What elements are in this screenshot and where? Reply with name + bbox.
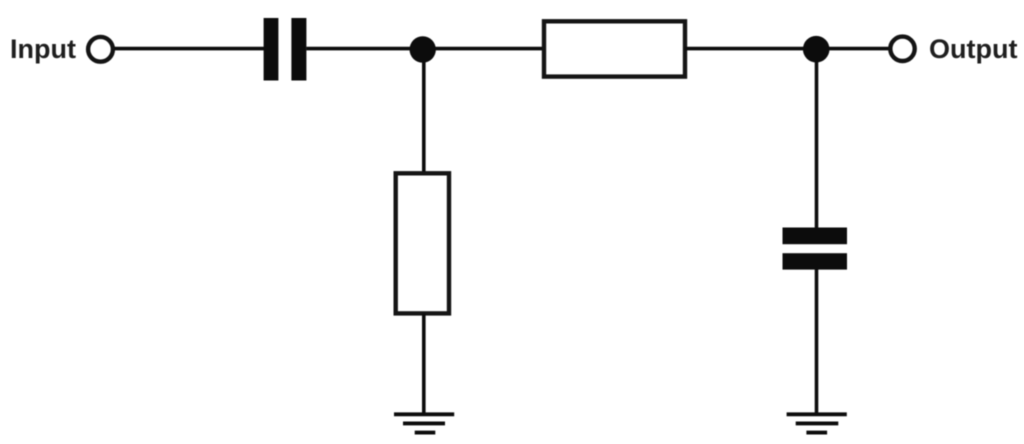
svg-text:Input: Input: [10, 34, 76, 64]
wire: [422, 49, 426, 173]
wire: [306, 47, 420, 51]
wire: [815, 49, 819, 229]
svg-text:Output: Output: [929, 34, 1017, 64]
wire: [824, 47, 890, 51]
wire: [685, 47, 812, 51]
capacitor C2: [783, 228, 848, 270]
node Output terminal: [890, 37, 914, 61]
wire: [815, 268, 819, 414]
ground: [787, 414, 847, 432]
capacitor C1: [264, 18, 307, 81]
ground: [394, 414, 454, 432]
wire: [430, 47, 544, 51]
junction node B: [803, 36, 830, 63]
wire: [422, 314, 426, 415]
resistor R2: [396, 173, 449, 313]
junction node A: [410, 36, 436, 62]
resistor R1: [544, 21, 685, 76]
wire: [115, 47, 266, 51]
node Input terminal: [88, 37, 113, 62]
